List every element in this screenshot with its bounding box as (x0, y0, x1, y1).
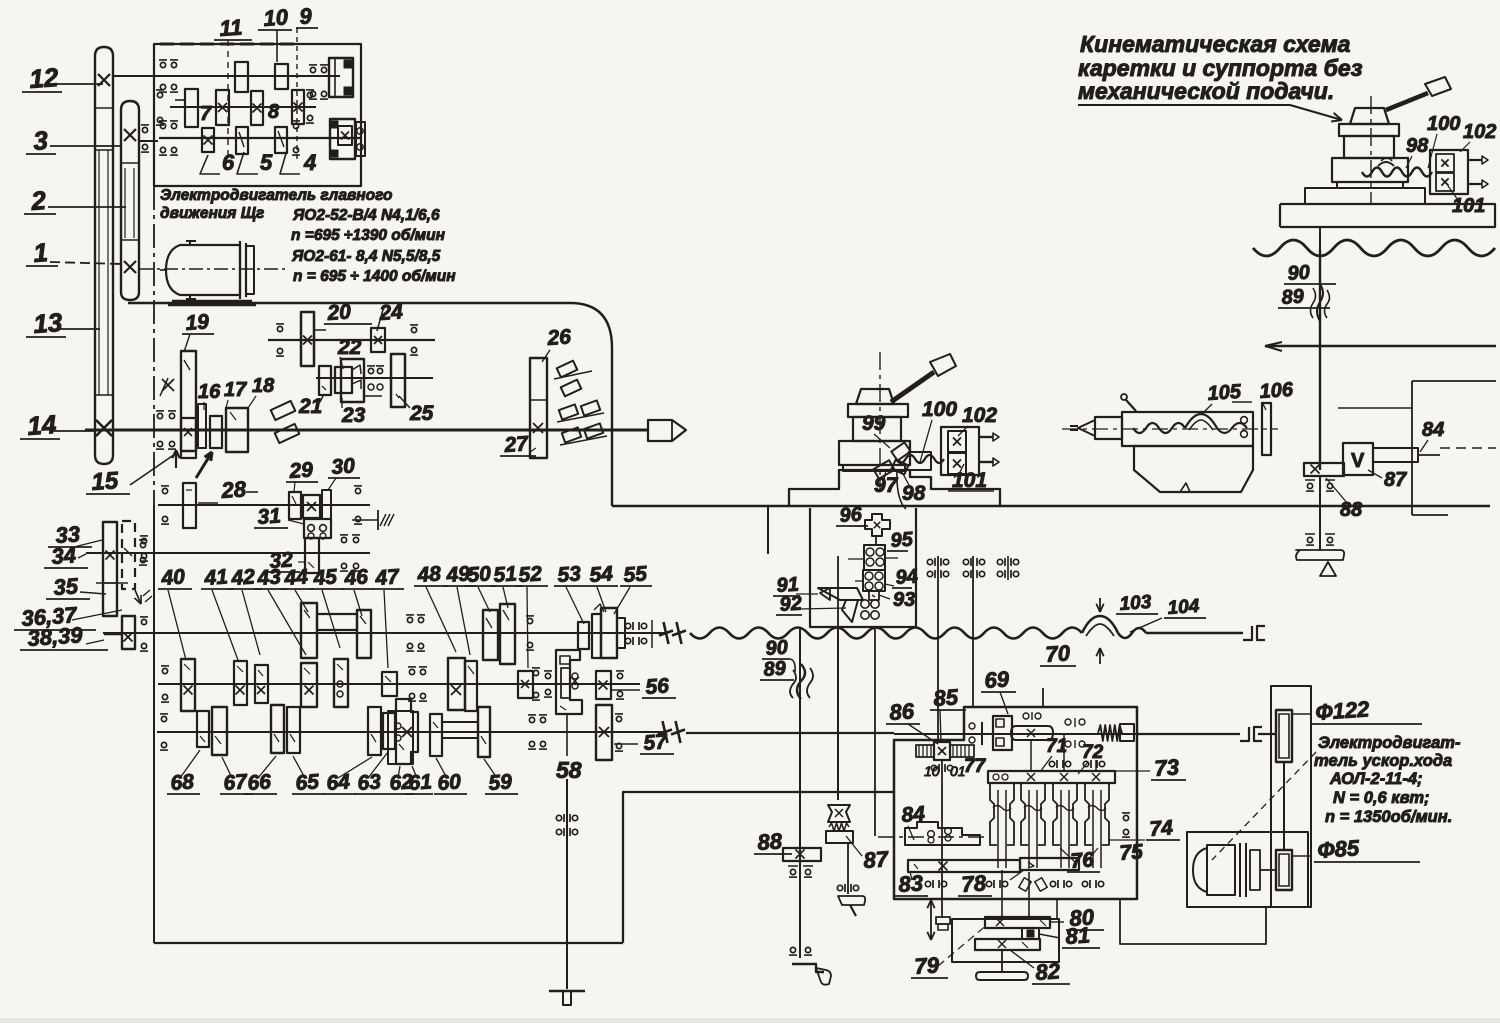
svg-text:27: 27 (503, 432, 530, 457)
bracket right (1411, 381, 1413, 515)
pulley X top-left (98, 74, 110, 86)
spline pairs above bar (1049, 761, 1054, 766)
svg-text:65: 65 (295, 770, 320, 795)
motor shaft centerline (160, 269, 166, 271)
svg-text:50: 50 (467, 562, 492, 587)
svg-text:N = 0,6 квт;: N = 0,6 квт; (1333, 789, 1430, 807)
svg-text:48: 48 (416, 562, 442, 587)
vertical selector rod below 58 (566, 779, 568, 989)
gear 7 shaft II (185, 89, 198, 127)
svg-text:96: 96 (839, 503, 864, 527)
arrow-hatch mark at stack (135, 590, 141, 604)
bearing rowV right (533, 670, 538, 675)
svg-text:29: 29 (288, 458, 314, 483)
line above 84 (1338, 407, 1412, 409)
svg-text:79: 79 (914, 952, 941, 979)
svg-text:движения Щг: движения Щг (160, 205, 264, 222)
svg-text:35: 35 (53, 573, 80, 600)
svg-text:61: 61 (408, 770, 433, 795)
gear 43 (301, 663, 317, 707)
bearing worm shaft (931, 765, 936, 770)
gearbox shaft I (113, 75, 340, 77)
svg-text:101: 101 (952, 469, 987, 492)
svg-text:63: 63 (357, 770, 382, 795)
tr centerline (1370, 96, 1372, 204)
label 58 leader (566, 714, 568, 756)
svg-text:95: 95 (890, 528, 915, 552)
bearing mark 74 (1123, 815, 1128, 820)
gear 53 (578, 622, 589, 649)
nut hump 103 (1082, 616, 1118, 633)
svg-text:87: 87 (863, 846, 891, 873)
arrow mark left of 19 (162, 379, 174, 391)
svg-text:47: 47 (374, 565, 401, 590)
svg-text:86: 86 (889, 698, 916, 725)
svg-text:94: 94 (895, 565, 919, 588)
pulley X bottom-left (14) (96, 420, 112, 436)
svg-text:n = 695 ÷ 1400 об/мин: n = 695 ÷ 1400 об/мин (293, 268, 456, 285)
bearing rod 88 lower (790, 947, 795, 952)
spline symbols right of 55 (625, 623, 630, 628)
rack 84 (905, 822, 980, 845)
motor centerline to pulley 1 (139, 268, 285, 270)
svg-text:74: 74 (1149, 816, 1174, 841)
gear 59 (478, 707, 490, 757)
worm hatched left (916, 745, 934, 757)
svg-text:Электродвигат-: Электродвигат- (1318, 734, 1461, 752)
gear 88 on rod (783, 848, 821, 861)
spring on shaft (1098, 725, 1122, 741)
svg-text:38,39: 38,39 (27, 622, 84, 651)
svg-text:30: 30 (331, 454, 356, 479)
svg-text:56: 56 (645, 674, 670, 699)
clutch block shaft I right (329, 58, 353, 97)
svg-text:99: 99 (862, 412, 886, 435)
ground hatch row28 (352, 519, 378, 521)
tailstock screw squiggle (1133, 423, 1185, 433)
tailstock handle (1126, 400, 1136, 411)
bearing row28 right (355, 488, 360, 493)
tailstock quill (1095, 417, 1122, 439)
motor base (172, 300, 252, 302)
gear 30 with x (303, 495, 320, 518)
bar 80 (985, 917, 1050, 928)
clutch fork 1 (990, 783, 997, 845)
cone below handle (1320, 562, 1336, 576)
tool holder step right (908, 452, 931, 470)
tr bottom plate (1280, 204, 1495, 227)
bearing row1 left (277, 326, 282, 331)
svg-text:21: 21 (298, 395, 322, 418)
svg-text:87: 87 (1384, 469, 1407, 491)
bar 83 (908, 860, 1020, 872)
svg-text:73: 73 (1154, 754, 1180, 781)
leadscrew wavy (690, 628, 1082, 639)
svg-text:84: 84 (901, 802, 926, 827)
svg-text:V: V (1351, 450, 1365, 472)
tr pins (1468, 159, 1482, 161)
gear 62 cluster (388, 711, 413, 764)
tool post mid block (853, 417, 901, 441)
gear 56 (596, 671, 611, 699)
svg-text:40: 40 (160, 565, 186, 590)
svg-text:43: 43 (256, 565, 282, 590)
svg-text:55: 55 (623, 562, 648, 587)
pins on 102 (979, 436, 993, 438)
svg-text:8: 8 (268, 101, 280, 123)
svg-text:18: 18 (252, 375, 275, 397)
shaft row VI (157, 731, 664, 733)
svg-text:28: 28 (220, 476, 248, 503)
tr cap (1350, 108, 1389, 124)
shaft line pulley 3 (139, 140, 158, 142)
svg-text:67: 67 (223, 770, 249, 795)
gear 41 (234, 661, 247, 705)
tr flex 98 (1362, 168, 1432, 177)
fast motor (1193, 848, 1207, 892)
spring end block (1120, 724, 1134, 741)
svg-text:84: 84 (1422, 419, 1444, 441)
dog teeth right of 26 (557, 361, 578, 378)
tr lever (1386, 93, 1428, 110)
svg-text:97: 97 (874, 474, 899, 497)
belt vertical (1283, 762, 1285, 850)
svg-text:90: 90 (765, 636, 789, 659)
svg-text:Ф85: Ф85 (1317, 835, 1361, 863)
gear 63 (383, 713, 395, 749)
gear 17 (210, 416, 222, 448)
spindle shaft (85, 429, 648, 432)
bearing pair left of 38-39 shaft (141, 619, 146, 624)
bearing right of stack (140, 542, 145, 547)
coupling row IV (664, 622, 669, 644)
svg-text:2: 2 (29, 185, 47, 216)
svg-text:78: 78 (961, 870, 988, 897)
gear cluster 22-23 (341, 359, 364, 402)
vertical shaft 96 (875, 536, 877, 545)
svg-text:102: 102 (962, 404, 997, 427)
tr mid block (1344, 136, 1394, 158)
gearbox shaft II (170, 106, 316, 108)
svg-text:9: 9 (299, 3, 314, 29)
shaft to fast pulley (1137, 733, 1240, 735)
svg-text:100: 100 (1427, 113, 1460, 135)
tr thin plate (1337, 182, 1403, 188)
block 31 circles (304, 519, 331, 538)
bearing rowVI right (529, 717, 534, 722)
spline glyph row bottom (925, 881, 930, 886)
cross feed box outline (810, 508, 916, 627)
gear 88 right (1304, 463, 1344, 476)
bearing circles right of worm (1065, 719, 1071, 725)
carriage base block (839, 441, 910, 465)
clutch fork 3 (1053, 783, 1060, 845)
bearing pair left of gearbox shaft III (142, 127, 147, 132)
gear 93 small (869, 591, 879, 600)
shaft row 33-34 (86, 552, 370, 554)
vertical rod 96-down (874, 628, 876, 836)
gear 47 (382, 672, 397, 696)
gear 32 (305, 538, 319, 573)
tilted spline glyphs (1019, 878, 1031, 892)
gear 29 (289, 492, 301, 519)
flex squiggle 100 (896, 455, 944, 463)
bearing pairs shaft I (160, 62, 165, 67)
gear 57 (596, 705, 612, 760)
svg-text:10: 10 (263, 4, 290, 31)
bearing left of 69 (981, 722, 983, 745)
bearing right rod lower (1307, 537, 1312, 542)
shaft row 28 (158, 504, 370, 506)
bar 82 (975, 939, 1040, 950)
svg-text:23: 23 (341, 404, 366, 427)
spline symbol group b (963, 559, 968, 564)
pulley X (3) (124, 129, 136, 141)
svg-text:19: 19 (185, 310, 210, 335)
title arrow (1290, 105, 1342, 120)
gear 65 (287, 707, 300, 753)
svg-text:54: 54 (589, 562, 614, 587)
gear 16 cluster on spindle (181, 418, 196, 458)
end bracket leadscrew (1243, 626, 1252, 640)
spline symbol group c (997, 559, 1002, 564)
svg-text:46: 46 (343, 565, 369, 590)
gear 19 (181, 351, 196, 451)
svg-text:Ф122: Ф122 (1315, 696, 1371, 725)
gear 21 (319, 366, 331, 395)
apron box outline (894, 707, 1137, 899)
svg-text:16: 16 (198, 381, 221, 403)
screw housing 102 (941, 427, 979, 475)
svg-text:100: 100 (922, 398, 957, 421)
svg-text:77: 77 (964, 756, 987, 777)
tailstock base (1134, 446, 1253, 492)
safety clutch 87 on rod (828, 805, 850, 822)
tick mark 35 (96, 582, 128, 584)
svg-text:42: 42 (230, 565, 256, 590)
gear 54-55 cluster (592, 614, 601, 658)
svg-text:98: 98 (1406, 135, 1429, 157)
bearing rod 87 (837, 885, 842, 890)
tailstock hump 105 (1185, 414, 1217, 428)
svg-text:89: 89 (763, 657, 788, 681)
gear 28 (183, 483, 196, 528)
tailstock circles (1241, 417, 1248, 424)
gear column A 33-35 (103, 522, 117, 616)
svg-text:26: 26 (546, 325, 572, 350)
tool post cap (856, 389, 894, 404)
svg-text:93: 93 (893, 589, 915, 611)
gear 26-27 (530, 358, 547, 458)
carriage thin plate (843, 465, 905, 471)
gear x shaft II a (216, 90, 229, 125)
svg-text:11: 11 (219, 14, 244, 41)
svg-text:22: 22 (337, 336, 362, 359)
pulley right edge gearbox (356, 122, 365, 156)
svg-text:14: 14 (26, 409, 57, 441)
vertical rod 87 below bed (837, 628, 839, 800)
svg-text:ЯО2-52-В/4 N4,1/6,6: ЯО2-52-В/4 N4,1/6,6 (292, 207, 440, 224)
svg-text:15: 15 (91, 467, 120, 496)
svg-text:88: 88 (1340, 499, 1363, 521)
enclosure step right (623, 792, 894, 943)
bearing rowVI left (161, 716, 166, 721)
wire from 98 into box (897, 470, 906, 509)
shaft row1 (268, 339, 435, 341)
tool bit 97 98 (873, 460, 894, 479)
tr plate (1339, 124, 1399, 136)
tr screw housing 102 (1430, 150, 1468, 194)
belt pulley bar left (items 13,14) (95, 47, 113, 464)
shaft row IV (103, 632, 665, 634)
gear 4 on shaft III (275, 127, 287, 153)
svg-text:60: 60 (437, 770, 462, 795)
tool post plate (848, 404, 908, 417)
svg-text:АОЛ-2-11-4;: АОЛ-2-11-4; (1329, 770, 1423, 788)
svg-text:98: 98 (902, 482, 926, 505)
handle right (1296, 550, 1344, 560)
svg-text:103: 103 (1119, 592, 1153, 615)
gear 69 block (993, 716, 1012, 750)
svg-text:25: 25 (409, 402, 434, 425)
svg-text:45: 45 (312, 565, 338, 590)
crank handle 88 (792, 964, 824, 972)
fast motor box (1187, 832, 1308, 907)
gear 87 right box (1343, 443, 1373, 475)
gear 48-49 (448, 658, 465, 710)
shaft line through pulley 12 (113, 75, 168, 77)
gear 45 (334, 659, 348, 707)
gear stack 95 (864, 545, 885, 570)
vertical rod 69 to apron (1042, 688, 1044, 707)
gear 42 (255, 665, 268, 703)
tr ground wavy (1253, 240, 1495, 256)
gear stack 94 (863, 570, 885, 591)
coupling row VI (663, 721, 668, 743)
svg-text:4: 4 (303, 150, 316, 175)
bearing right rod (1307, 483, 1312, 488)
gear 40 (181, 659, 195, 711)
bearing circles above worm (1023, 713, 1029, 719)
pulley 85 (1276, 850, 1292, 890)
tr vertical rod (1319, 227, 1321, 250)
spline hatch left of gears (271, 401, 296, 420)
tr pedestal (1305, 188, 1425, 204)
svg-text:Электродвигатель главного: Электродвигатель главного (160, 187, 393, 204)
svg-text:31: 31 (257, 504, 282, 529)
gear 66 (271, 705, 284, 753)
worm vertical shaft (941, 760, 943, 918)
headstock enclosure outline (153, 186, 155, 505)
short verticals worm to bar (1030, 741, 1032, 771)
svg-text:n =695 ÷1390 об/мин: n =695 ÷1390 об/мин (291, 227, 446, 244)
gear 25 (391, 354, 405, 407)
svg-text:89: 89 (1281, 285, 1306, 309)
handwheel plate 106 (1262, 403, 1271, 455)
vertical rod 90 below bed (799, 628, 801, 958)
svg-text:20: 20 (326, 300, 352, 325)
svg-text:106: 106 (1259, 379, 1295, 403)
tr base (1332, 158, 1408, 182)
bearing row1 right (411, 327, 416, 332)
bearing rowV left (162, 668, 167, 673)
carriage centerline vertical (879, 352, 881, 490)
svg-text:102: 102 (1463, 121, 1496, 143)
tool bit 99 (891, 442, 910, 460)
enclosure bottom (154, 942, 623, 944)
gear 60 with bar to 59 (430, 714, 442, 756)
gear 64 (368, 707, 381, 755)
spline vertical rods 85 (937, 556, 939, 742)
gear 44-46 cluster on row IV (301, 603, 317, 658)
gear 52 (518, 671, 533, 698)
svg-text:104: 104 (1167, 596, 1201, 619)
svg-text:53: 53 (557, 562, 582, 587)
L line to motorbox (1120, 899, 1266, 944)
tailstock barrel (1122, 412, 1253, 446)
gear 20 (301, 312, 314, 366)
gearbox enclosure (154, 44, 361, 186)
svg-text:69: 69 (984, 666, 1011, 693)
selector arrows 15 (175, 450, 177, 468)
lever 91 92 (818, 588, 863, 600)
bearing rowV mid (409, 669, 414, 674)
rack centerline (878, 836, 987, 838)
tr cross line (1265, 345, 1496, 348)
gear 6 on shaft III (202, 128, 214, 152)
svg-text:81: 81 (1065, 922, 1091, 949)
svg-text:механической подачи.: механической подачи. (1078, 78, 1334, 104)
bearing row33 right (341, 537, 346, 542)
belt housing box (1271, 686, 1311, 907)
shaft row1b (316, 377, 433, 379)
handwheel below 82 (1001, 950, 1003, 972)
svg-text:64: 64 (326, 770, 351, 795)
shaft row V (158, 683, 640, 685)
shaft 84 right (1373, 448, 1418, 462)
svg-text:66: 66 (247, 770, 272, 795)
bearing mid row1 (368, 368, 373, 373)
apron shaft row VI (894, 733, 1137, 735)
svg-text:10: 10 (924, 763, 940, 779)
fork rods to bottom (1001, 870, 1003, 917)
saddle tick below bed (767, 506, 769, 554)
tailstock cone tip (1078, 420, 1095, 436)
rod 87 inside box (837, 556, 839, 627)
svg-text:1: 1 (32, 237, 49, 268)
belt pulley bar right (items 2,3) (121, 101, 139, 300)
gear 61 shape (396, 699, 418, 764)
block 81 (1022, 928, 1039, 939)
circle column below 93 (861, 600, 869, 608)
clutch fork 2 (1021, 783, 1028, 845)
svg-text:Кинематическая схема: Кинематическая схема (1080, 31, 1351, 57)
svg-text:72: 72 (1082, 742, 1104, 763)
below-apron box 79-82 (952, 919, 1059, 962)
bearing pairs shaft III (160, 123, 165, 128)
dog teeth spindle right (559, 404, 578, 419)
bearing spindle left (157, 413, 162, 418)
tr break 89-90 (1311, 288, 1316, 318)
svg-text:5: 5 (260, 150, 273, 175)
screw T end bottom (549, 990, 585, 993)
spline symbol group a (927, 559, 932, 564)
gear x shaft II c (292, 90, 304, 124)
main motor body (166, 245, 240, 295)
carriage profile on bed (789, 470, 1000, 506)
bed top line (612, 505, 1490, 507)
spindle nose center arrow (648, 420, 686, 441)
